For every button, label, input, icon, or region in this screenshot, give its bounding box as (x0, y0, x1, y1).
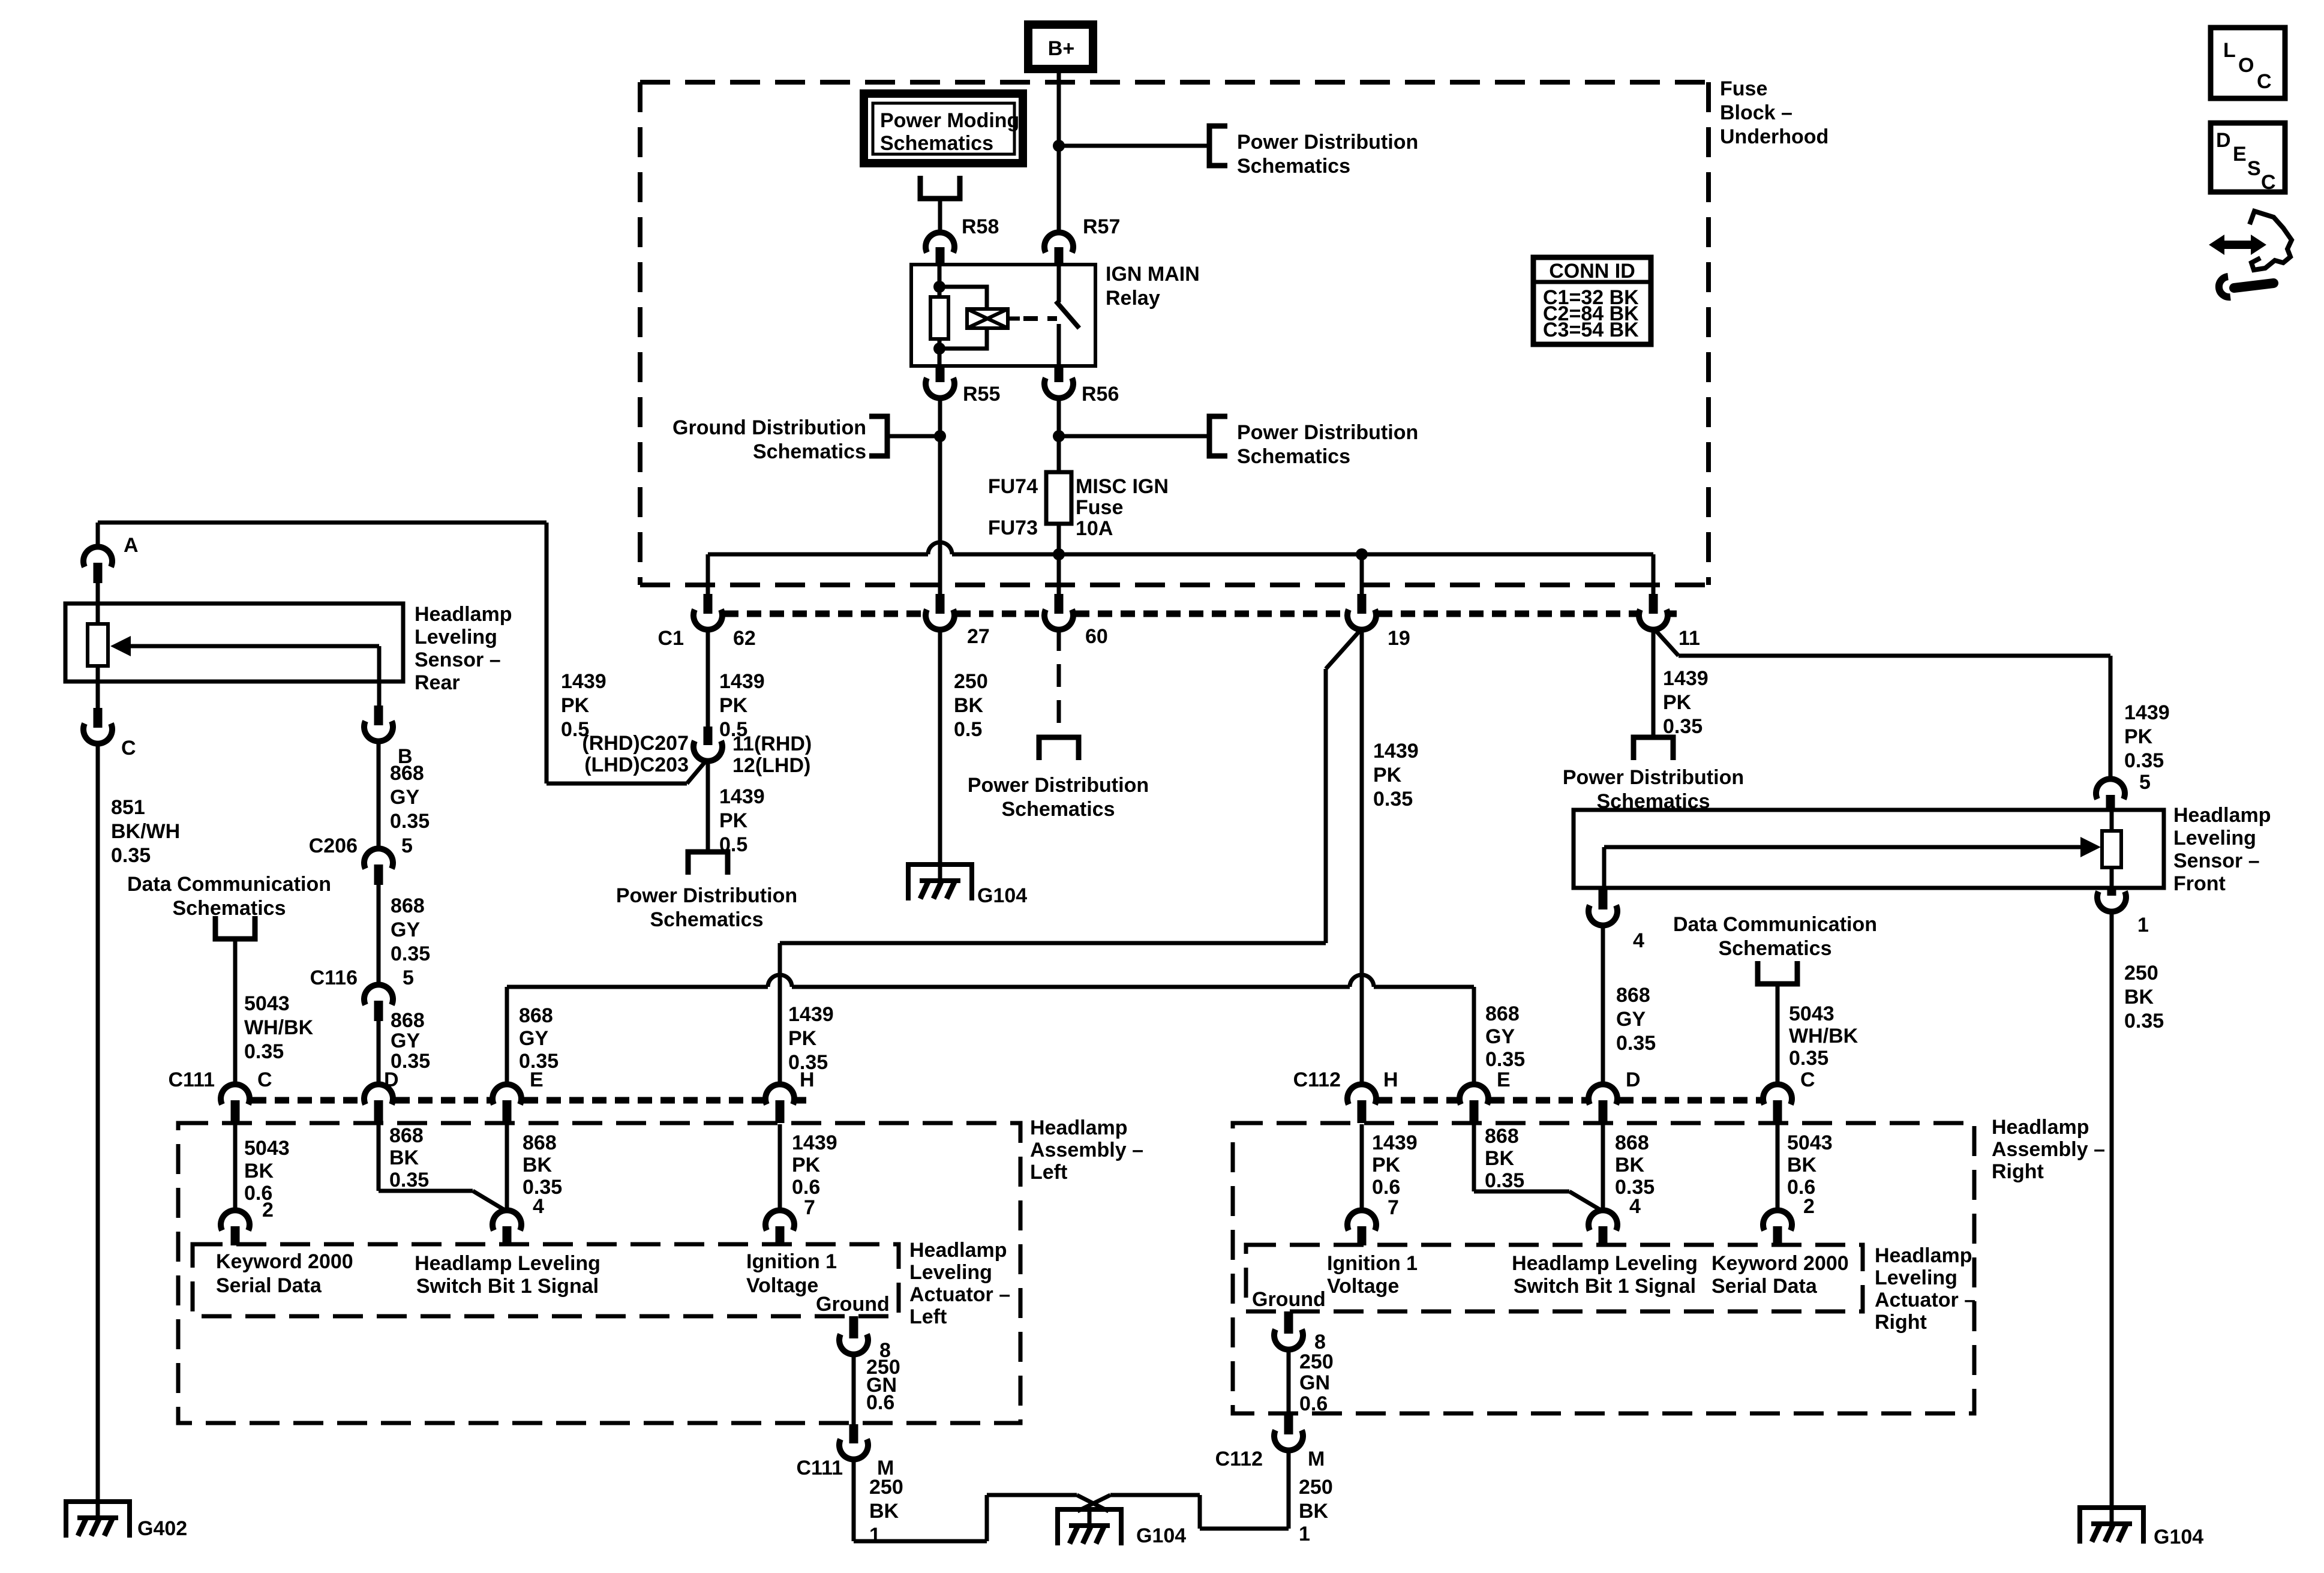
svg-text:11(RHD): 11(RHD) (732, 733, 812, 755)
svg-text:R56: R56 (1082, 383, 1119, 406)
wire front sensor 4 to C112 D (868 GY) (1603, 924, 1656, 1087)
svg-text:Schematics: Schematics (650, 908, 764, 931)
wire C112 H to actuator 7 right (1439 PK) (1362, 1124, 1418, 1212)
svg-text:1439: 1439 (1372, 1131, 1418, 1154)
wire fuse to bus (1057, 524, 1061, 594)
svg-text:4: 4 (533, 1195, 544, 1218)
bus wire inside fuse block (708, 542, 1653, 594)
wire 250 BK front sensor to G104 (2112, 910, 2164, 1508)
wire R56 down (1057, 397, 1061, 472)
svg-text:O: O (2238, 54, 2254, 77)
wire 868 GY C206 to C116 (379, 885, 430, 986)
svg-text:1439: 1439 (719, 785, 765, 808)
actuator right ground pin 8 (1274, 1311, 1326, 1353)
svg-text:Power Moding: Power Moding (880, 109, 1019, 132)
connector C112 pin H (1293, 1068, 1398, 1123)
data communication schematics (left) (127, 873, 331, 920)
svg-text:Schematics: Schematics (1237, 155, 1350, 178)
svg-text:Power Distribution: Power Distribution (1237, 131, 1418, 154)
svg-text:27: 27 (967, 625, 990, 648)
svg-text:FU74: FU74 (988, 475, 1038, 498)
svg-text:Sensor –: Sensor – (415, 649, 501, 671)
svg-text:868: 868 (390, 762, 424, 785)
connector C111 pin D (364, 1068, 399, 1123)
CONN ID table (1533, 257, 1651, 344)
svg-text:851: 851 (111, 796, 145, 819)
svg-text:A: A (124, 534, 139, 557)
svg-text:PK: PK (1372, 1154, 1401, 1176)
wire to power distribution schematics (1059, 144, 1208, 148)
svg-text:5043: 5043 (1789, 1002, 1834, 1025)
svg-text:Relay: Relay (1106, 287, 1160, 310)
svg-text:5043: 5043 (244, 992, 290, 1015)
bracket power distribution (R56) (1209, 416, 1227, 456)
svg-text:868: 868 (1485, 1125, 1519, 1148)
svg-text:Voltage: Voltage (746, 1274, 818, 1297)
svg-text:WH/BK: WH/BK (1789, 1025, 1858, 1047)
svg-text:M: M (1308, 1448, 1325, 1470)
svg-text:Actuator –: Actuator – (1875, 1289, 1975, 1311)
svg-text:5: 5 (2139, 771, 2151, 794)
svg-text:WH/BK: WH/BK (244, 1016, 314, 1039)
svg-text:Headlamp: Headlamp (2173, 804, 2271, 827)
svg-text:Schematics: Schematics (1719, 937, 1832, 960)
svg-text:C: C (257, 1068, 272, 1091)
wiper arrow rear sensor (110, 636, 379, 706)
connector R56 (1044, 366, 1119, 406)
svg-text:0.35: 0.35 (391, 942, 430, 965)
svg-text:868: 868 (1615, 1131, 1649, 1154)
connector C111 pin C (168, 1068, 272, 1123)
svg-text:Assembly –: Assembly – (1030, 1139, 1143, 1161)
wire C111 C to actuator 2 (5043 BK) (235, 1124, 290, 1212)
wire B+ to relay R57 (1057, 70, 1061, 235)
svg-text:Leveling: Leveling (2173, 827, 2256, 849)
svg-text:2: 2 (262, 1199, 274, 1221)
connector C1 pin 27 (926, 594, 990, 648)
svg-text:BK: BK (1787, 1154, 1817, 1176)
svg-text:PK: PK (719, 694, 748, 717)
svg-text:1: 1 (869, 1524, 881, 1547)
svg-text:BK: BK (1615, 1154, 1645, 1176)
svg-text:IGN MAIN: IGN MAIN (1106, 263, 1200, 286)
connector C112 pin E (1460, 1068, 1511, 1123)
wire C111 E to actuator 4 (868 BK) (507, 1124, 562, 1212)
Power Moding Schematics box (864, 94, 1023, 163)
connector C207/C203 (582, 727, 812, 777)
svg-text:C116: C116 (310, 966, 358, 989)
svg-text:1439: 1439 (792, 1131, 837, 1154)
connector C206 pin 5 (309, 834, 413, 885)
svg-text:Headlamp: Headlamp (1030, 1116, 1128, 1139)
svg-text:FU73: FU73 (988, 517, 1038, 539)
wiper arrow front sensor (1604, 837, 2101, 888)
svg-text:GN: GN (1299, 1371, 1330, 1394)
svg-text:0.35: 0.35 (1373, 788, 1413, 810)
DESC box (2211, 123, 2285, 194)
svg-text:MISC IGN: MISC IGN (1076, 475, 1169, 498)
svg-text:C3=54 BK: C3=54 BK (1543, 319, 1639, 341)
svg-text:Headlamp: Headlamp (415, 603, 512, 626)
svg-text:C: C (2257, 70, 2272, 93)
node junction ground distribution (934, 430, 946, 442)
svg-text:Fuse: Fuse (1076, 496, 1123, 519)
svg-text:H: H (800, 1068, 815, 1091)
actuator left connector 2 (221, 1199, 274, 1245)
wire 11 to front sensor (1439 PK) (1655, 630, 2170, 780)
connector C112 pin D (1589, 1068, 1641, 1123)
svg-text:E: E (530, 1068, 544, 1091)
svg-text:Power Distribution: Power Distribution (1237, 421, 1418, 444)
headlamp leveling actuator left dashed box (193, 1244, 899, 1316)
LOC box (2211, 28, 2285, 98)
fuse block label (1720, 77, 1828, 148)
svg-text:Schematics: Schematics (173, 897, 286, 920)
svg-text:Ignition 1: Ignition 1 (1327, 1252, 1418, 1275)
svg-text:Ground Distribution: Ground Distribution (672, 416, 866, 439)
svg-text:Schematics: Schematics (1002, 798, 1115, 821)
svg-text:BK: BK (389, 1146, 419, 1169)
svg-text:BK: BK (244, 1160, 274, 1182)
B+ power node (1028, 25, 1093, 69)
svg-text:19: 19 (1388, 627, 1410, 650)
potentiometer front sensor (2102, 810, 2121, 888)
svg-text:Right: Right (1875, 1311, 1927, 1334)
svg-text:5: 5 (401, 834, 413, 857)
svg-text:G104: G104 (977, 884, 1027, 907)
headlamp assembly left dashed box (178, 1123, 1020, 1423)
svg-text:L: L (2223, 39, 2236, 62)
connector C1 pin 11 (1639, 594, 1700, 650)
connector 5 front sensor (2096, 771, 2151, 810)
svg-text:Underhood: Underhood (1720, 125, 1828, 148)
wire 250 BK to G104 (940, 628, 988, 864)
svg-text:250: 250 (2124, 962, 2158, 984)
connector R58 (926, 215, 999, 265)
svg-text:7: 7 (1388, 1196, 1399, 1219)
svg-text:0.5: 0.5 (954, 718, 982, 741)
wire R55 down to connector 27 (938, 397, 942, 594)
connector C112 pin M (1215, 1415, 1325, 1470)
svg-text:BK: BK (1485, 1147, 1515, 1170)
svg-text:Ignition 1: Ignition 1 (746, 1250, 837, 1273)
svg-text:868: 868 (391, 894, 425, 917)
connector B rear sensor (364, 706, 413, 768)
svg-text:C112: C112 (1293, 1068, 1341, 1091)
svg-text:Ground: Ground (816, 1293, 890, 1316)
wire 250 GN right (1289, 1348, 1334, 1415)
wire 1439 PK 0.5 below C207 (708, 760, 765, 856)
svg-text:1439: 1439 (788, 1003, 834, 1026)
bracket power distribution (top) (1209, 126, 1227, 166)
relay switch (1056, 265, 1079, 366)
svg-text:R55: R55 (963, 383, 1000, 406)
actuator left ground pin 8 (839, 1316, 891, 1362)
connector C111 pin E (493, 1068, 544, 1123)
svg-text:5043: 5043 (1787, 1131, 1833, 1154)
wire to power distribution bracket (R56) (1059, 434, 1208, 439)
svg-text:Headlamp: Headlamp (909, 1239, 1007, 1262)
svg-text:250: 250 (869, 1476, 903, 1499)
svg-text:Headlamp Leveling: Headlamp Leveling (1512, 1252, 1698, 1275)
bracket ground distribution (869, 416, 887, 456)
svg-text:868: 868 (389, 1124, 424, 1147)
wire 868 GY B to C206 (379, 740, 430, 850)
svg-text:0.6: 0.6 (1372, 1176, 1400, 1199)
ground G402 (64, 1502, 132, 1538)
svg-text:0.35: 0.35 (1485, 1048, 1525, 1071)
svg-text:C1: C1 (658, 627, 684, 650)
svg-text:7: 7 (804, 1196, 815, 1219)
svg-text:GY: GY (519, 1027, 548, 1050)
node junction on B+ wire (1053, 140, 1065, 152)
svg-text:0.35: 0.35 (1616, 1032, 1656, 1055)
svg-text:Data Communication: Data Communication (1673, 913, 1877, 936)
wire 868 link C111-E to C112-E (507, 975, 1525, 1087)
svg-text:250: 250 (1299, 1350, 1334, 1373)
svg-text:Switch Bit 1 Signal: Switch Bit 1 Signal (1514, 1275, 1696, 1298)
dashed wire 60 (1057, 628, 1061, 737)
connector 4 front sensor (1589, 890, 1644, 952)
connector row C111 dotted (252, 1097, 806, 1104)
svg-text:Data Communication: Data Communication (127, 873, 331, 896)
view/service icon (2209, 211, 2292, 297)
svg-text:PK: PK (792, 1154, 821, 1176)
svg-text:PK: PK (1373, 764, 1402, 786)
wire C112 D to actuator 4 right (868 BK) (1603, 1124, 1655, 1212)
svg-text:(RHD)C207: (RHD)C207 (582, 732, 689, 755)
connector C rear sensor (83, 708, 136, 760)
svg-text:D: D (2216, 129, 2231, 152)
svg-text:868: 868 (1485, 1002, 1520, 1025)
svg-text:11: 11 (1679, 627, 1700, 650)
svg-text:PK: PK (2124, 725, 2153, 748)
actuator right connector 2 (1763, 1195, 1815, 1245)
headlamp leveling actuator right dashed box (1246, 1245, 1863, 1311)
svg-text:E: E (1497, 1068, 1511, 1091)
svg-text:CONN ID: CONN ID (1549, 260, 1635, 283)
wire 19 to headlamps (1439 PK) (780, 628, 1419, 1087)
data communication schematics (right) (1673, 913, 1877, 960)
svg-text:G104: G104 (1136, 1524, 1186, 1547)
svg-text:0.35: 0.35 (2124, 1010, 2164, 1032)
svg-text:0.35: 0.35 (390, 810, 430, 833)
svg-text:GY: GY (391, 918, 420, 941)
svg-text:C111: C111 (796, 1457, 843, 1479)
headlamp leveling sensor rear: top wire (98, 523, 706, 784)
svg-text:Assembly –: Assembly – (1992, 1138, 2105, 1161)
svg-text:PK: PK (719, 809, 748, 832)
ground G104 (bottom) (1055, 1509, 1124, 1545)
wire 11 down to bracket (1653, 628, 1709, 738)
wire 1439 PK 62 chain (561, 628, 765, 741)
svg-text:868: 868 (523, 1131, 557, 1154)
svg-text:PK: PK (1663, 691, 1692, 714)
wire C111 D to actuator 4 (868 BK) (379, 1124, 506, 1211)
svg-text:Power Distribution: Power Distribution (1563, 766, 1744, 789)
svg-text:Switch Bit 1 Signal: Switch Bit 1 Signal (416, 1275, 599, 1298)
svg-text:S: S (2247, 157, 2261, 180)
bracket under power moding box (920, 176, 960, 199)
svg-text:Leveling: Leveling (1875, 1266, 1957, 1289)
svg-text:R57: R57 (1083, 215, 1120, 238)
wire 250 BK right to G104 (1077, 1449, 1333, 1545)
svg-text:R58: R58 (962, 215, 999, 238)
svg-text:1439: 1439 (1663, 667, 1709, 690)
connector C111 pin M (796, 1424, 894, 1479)
wire 250 BK left to G104 (854, 1458, 1109, 1547)
svg-text:GY: GY (390, 786, 419, 809)
svg-text:Schematics: Schematics (880, 132, 993, 155)
svg-text:868: 868 (391, 1009, 425, 1032)
connector C116 pin 5 (310, 966, 414, 1021)
svg-text:Keyword 2000: Keyword 2000 (1712, 1252, 1849, 1275)
svg-text:BK/WH: BK/WH (111, 820, 180, 843)
svg-text:1439: 1439 (719, 670, 765, 693)
wire data comm to C111 C (5043 WH/BK) (235, 939, 314, 1087)
svg-text:Serial Data: Serial Data (216, 1274, 322, 1297)
connector C1 pin 60 (1044, 594, 1108, 648)
svg-text:4: 4 (1629, 1195, 1641, 1218)
svg-text:250: 250 (954, 670, 988, 693)
potentiometer rear sensor (88, 583, 108, 708)
svg-text:Leveling: Leveling (415, 626, 497, 649)
svg-text:Actuator –: Actuator – (909, 1283, 1010, 1306)
svg-text:GY: GY (1485, 1025, 1515, 1048)
wire 868 GY C116 to C111 D (379, 1009, 430, 1087)
node junction R56 (1053, 430, 1065, 442)
svg-text:0.35: 0.35 (1663, 715, 1703, 738)
svg-text:BK: BK (869, 1500, 899, 1523)
svg-text:BK: BK (954, 694, 984, 717)
wire C112 C to actuator 2 right (5043 BK) (1777, 1124, 1833, 1212)
svg-text:C: C (2261, 171, 2276, 194)
svg-text:Schematics: Schematics (753, 440, 866, 463)
svg-text:4: 4 (1633, 929, 1644, 952)
svg-text:Power Distribution: Power Distribution (616, 884, 797, 907)
bracket power distribution (62) (688, 852, 728, 875)
svg-text:E: E (2233, 143, 2247, 166)
svg-text:Rear: Rear (415, 671, 460, 694)
svg-text:C111: C111 (168, 1068, 215, 1091)
svg-text:Ground: Ground (1252, 1288, 1326, 1311)
ground G104 (right) (2077, 1508, 2146, 1544)
svg-text:0.6: 0.6 (1299, 1392, 1328, 1415)
svg-text:0.35: 0.35 (1789, 1047, 1828, 1070)
bracket power distribution (60) (1039, 737, 1079, 760)
connector C1 pin 19 (1347, 594, 1410, 650)
connector row C112 dotted (1378, 1097, 1761, 1104)
svg-text:BK: BK (523, 1154, 553, 1176)
svg-text:Left: Left (909, 1305, 947, 1328)
headlamp leveling sensor front box (1574, 810, 2164, 888)
svg-text:62: 62 (733, 627, 756, 650)
svg-text:Headlamp Leveling: Headlamp Leveling (415, 1252, 600, 1275)
svg-text:1439: 1439 (1373, 740, 1419, 763)
svg-text:10A: 10A (1076, 517, 1113, 540)
svg-text:Schematics: Schematics (1237, 445, 1350, 468)
ground G104 (fuse block) (906, 864, 974, 900)
svg-text:D: D (384, 1068, 399, 1091)
svg-text:GY: GY (391, 1029, 420, 1052)
svg-text:868: 868 (519, 1004, 553, 1027)
svg-text:Voltage: Voltage (1327, 1275, 1399, 1298)
svg-text:Leveling: Leveling (909, 1261, 992, 1284)
actuator left connector 7 (765, 1196, 815, 1245)
headlamp assembly right dashed box (1233, 1123, 1974, 1413)
fuse block underhood dashed box (640, 82, 1709, 585)
actuator right connector 4 (1589, 1195, 1641, 1245)
svg-text:G402: G402 (137, 1517, 187, 1540)
svg-text:0.35: 0.35 (1485, 1169, 1524, 1192)
svg-text:Power Distribution: Power Distribution (968, 774, 1149, 797)
wire data comm to C112 C (5043 WH/BK) (1777, 984, 1858, 1087)
wire 250 GN left (854, 1353, 900, 1424)
svg-text:PK: PK (561, 694, 590, 717)
svg-text:Headlamp: Headlamp (1992, 1116, 2089, 1139)
wire power moding to R58 (938, 199, 942, 235)
svg-text:0.35: 0.35 (2124, 749, 2164, 772)
svg-text:Sensor –: Sensor – (2173, 849, 2260, 872)
svg-text:Serial Data: Serial Data (1712, 1275, 1818, 1298)
svg-text:C: C (1800, 1068, 1815, 1091)
svg-text:868: 868 (1616, 984, 1650, 1007)
svg-text:0.35: 0.35 (389, 1169, 429, 1191)
svg-text:C: C (121, 737, 136, 760)
svg-text:5043: 5043 (244, 1137, 290, 1160)
svg-text:0.6: 0.6 (792, 1176, 820, 1199)
svg-text:60: 60 (1085, 625, 1108, 648)
svg-text:GY: GY (1616, 1008, 1646, 1031)
relay linkage dashed (1023, 316, 1057, 321)
connector C112 pin C (1763, 1068, 1815, 1123)
svg-text:1439: 1439 (561, 670, 606, 693)
svg-text:Fuse: Fuse (1720, 77, 1767, 100)
connector C111 pin H (765, 1068, 815, 1123)
svg-text:BK: BK (1299, 1500, 1329, 1523)
svg-text:Right: Right (1992, 1160, 2044, 1183)
svg-text:C112: C112 (1215, 1448, 1263, 1470)
svg-text:250: 250 (1299, 1476, 1333, 1499)
svg-text:BK: BK (2124, 986, 2154, 1008)
wire C112 E to actuator 4 right (868 BK) (1474, 1124, 1602, 1211)
IGN MAIN relay box (911, 263, 1200, 366)
connector C1 pin 62 (658, 594, 756, 650)
headlamp leveling sensor rear box (65, 604, 403, 682)
wire 851 BK/WH to G402 (98, 742, 180, 1502)
svg-text:C206: C206 (309, 834, 358, 857)
svg-text:Left: Left (1030, 1161, 1067, 1184)
svg-text:Block –: Block – (1720, 101, 1792, 124)
svg-text:0.35: 0.35 (111, 844, 151, 867)
svg-text:2: 2 (1803, 1195, 1815, 1218)
svg-text:5: 5 (403, 966, 414, 989)
wire C111 H to actuator 7 (1439 PK) (780, 1124, 837, 1212)
svg-text:12(LHD): 12(LHD) (732, 754, 810, 777)
connector R55 (926, 366, 1000, 406)
relay coil circuit (930, 265, 1020, 366)
svg-text:1439: 1439 (2124, 701, 2170, 724)
svg-text:0.35: 0.35 (244, 1040, 284, 1063)
actuator right connector 7 (1347, 1196, 1399, 1245)
bracket power distribution (11) (1634, 737, 1673, 760)
svg-text:1: 1 (1299, 1523, 1310, 1545)
svg-text:1: 1 (2137, 914, 2149, 936)
svg-text:(LHD)C203: (LHD)C203 (584, 754, 689, 776)
svg-text:Headlamp: Headlamp (1875, 1244, 1972, 1267)
fuse FU74/FU73 MISC IGN 10A (988, 472, 1169, 540)
svg-text:B+: B+ (1048, 37, 1074, 60)
